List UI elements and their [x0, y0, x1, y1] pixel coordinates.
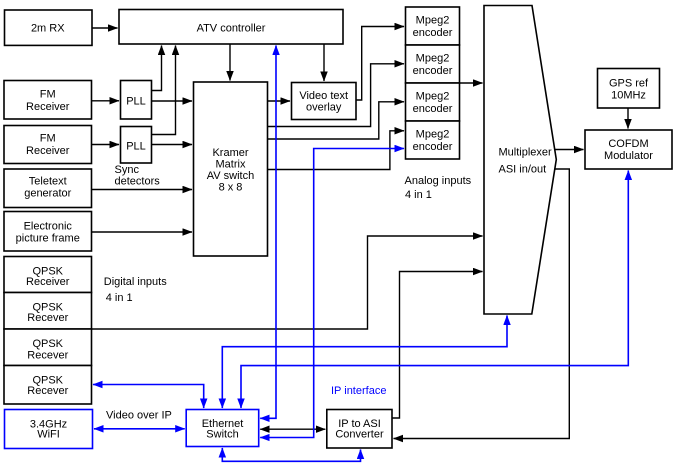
- svg-text:COFDM: COFDM: [608, 138, 648, 150]
- svg-text:Electronic: Electronic: [24, 221, 73, 233]
- svg-text:Multiplexer: Multiplexer: [499, 147, 553, 159]
- svg-text:encoder: encoder: [413, 27, 453, 39]
- svg-text:Receiver: Receiver: [26, 101, 70, 113]
- svg-text:generator: generator: [24, 188, 71, 200]
- svg-text:4 in 1: 4 in 1: [405, 189, 432, 201]
- svg-text:encoder: encoder: [413, 65, 453, 77]
- svg-text:QPSK: QPSK: [32, 338, 63, 350]
- svg-text:Video text: Video text: [299, 90, 348, 102]
- svg-text:Converter: Converter: [335, 429, 384, 441]
- svg-text:Receiver: Receiver: [26, 145, 70, 157]
- svg-text:Mpeg2: Mpeg2: [416, 52, 450, 64]
- svg-text:Recever: Recever: [27, 349, 68, 361]
- svg-text:Kramer: Kramer: [212, 147, 248, 159]
- svg-text:FM: FM: [40, 89, 56, 101]
- svg-text:WiFI: WiFI: [37, 429, 60, 441]
- svg-text:Receiver: Receiver: [26, 276, 70, 288]
- svg-text:Analog inputs: Analog inputs: [405, 175, 472, 187]
- svg-text:picture frame: picture frame: [16, 233, 80, 245]
- svg-text:Sync: Sync: [115, 164, 140, 176]
- svg-text:encoder: encoder: [413, 103, 453, 115]
- svg-text:Switch: Switch: [206, 429, 238, 441]
- svg-text:ASI in/out: ASI in/out: [499, 164, 547, 176]
- svg-text:Teletext: Teletext: [29, 176, 67, 188]
- svg-text:detectors: detectors: [115, 176, 161, 188]
- svg-text:Recever: Recever: [27, 312, 68, 324]
- svg-text:Modulator: Modulator: [604, 150, 653, 162]
- svg-text:Recever: Recever: [27, 385, 68, 397]
- svg-text:PLL: PLL: [126, 96, 146, 108]
- svg-text:Mpeg2: Mpeg2: [416, 128, 450, 140]
- svg-text:8 x 8: 8 x 8: [219, 181, 243, 193]
- svg-text:AV switch: AV switch: [207, 170, 254, 182]
- svg-text:Digital inputs: Digital inputs: [104, 276, 167, 288]
- svg-text:overlay: overlay: [306, 101, 342, 113]
- svg-text:IP interface: IP interface: [331, 385, 386, 397]
- svg-text:FM: FM: [40, 133, 56, 145]
- svg-text:Mpeg2: Mpeg2: [416, 14, 450, 26]
- svg-text:encoder: encoder: [413, 141, 453, 153]
- svg-text:Mpeg2: Mpeg2: [416, 90, 450, 102]
- svg-text:2m RX: 2m RX: [31, 23, 65, 35]
- svg-text:PLL: PLL: [126, 141, 146, 153]
- svg-text:Matrix: Matrix: [216, 158, 246, 170]
- svg-text:10MHz: 10MHz: [611, 89, 646, 101]
- svg-text:ATV controller: ATV controller: [197, 22, 266, 34]
- svg-text:GPS ref: GPS ref: [609, 77, 649, 89]
- svg-text:4 in 1: 4 in 1: [106, 292, 133, 304]
- svg-text:Video over IP: Video over IP: [106, 410, 172, 422]
